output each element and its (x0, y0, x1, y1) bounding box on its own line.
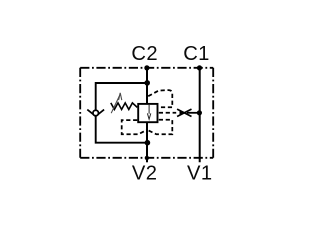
enclosure dash-dot boundary box top edge (80, 67, 213, 69)
svg-text:V2: V2 (132, 162, 158, 184)
enclosure dash-dot boundary box bottom edge (80, 157, 213, 159)
pilot line (dashed) lower-left hook to main line (122, 120, 147, 134)
node C2 junction dot (144, 65, 149, 70)
spring (adjustable) of relief valve (111, 103, 138, 110)
orifice/closed symbol X on pilot line (177, 109, 191, 116)
relief valve body R1 (square envelope) (138, 104, 157, 122)
pilot line (dashed) middle run to X symbol (159, 112, 176, 114)
spring adjustment arrowhead (119, 93, 122, 100)
node pilot junction dot on C1-V1 line (197, 110, 202, 115)
relief valve internal flow path with arrow (148, 104, 150, 114)
svg-text:C2: C2 (131, 43, 158, 65)
svg-text:C1: C1 (183, 43, 210, 65)
wire C2-V2 main line (upper segment) (146, 68, 148, 104)
node V2 boundary junction dot (145, 156, 149, 160)
enclosure dash-dot boundary box left edge (79, 68, 81, 158)
pilot flow arrowhead (180, 110, 186, 115)
check valve CV1 seat (87, 110, 104, 117)
spring adjustment arrow shaft (111, 95, 120, 113)
node loop-top junction dot (144, 80, 150, 86)
svg-text:V1: V1 (187, 162, 213, 184)
pilot line (dashed) lower-right hook to main line (147, 120, 172, 135)
wire check-valve bypass loop (top, left, bottom sides) (96, 83, 147, 143)
wire C2-V2 main line (lower segment) (146, 122, 148, 162)
node C1 junction dot (197, 65, 202, 70)
check valve CV1 ball (93, 110, 99, 116)
pilot line (dashed) upper hook from C2 line to valve right side (148, 90, 172, 107)
wire pilot solid segment to C1-V1 line (187, 112, 199, 114)
wire C1-V1 main line (199, 68, 201, 163)
enclosure dash-dot boundary box right edge (212, 68, 214, 158)
node loop-bottom junction dot (145, 140, 151, 146)
